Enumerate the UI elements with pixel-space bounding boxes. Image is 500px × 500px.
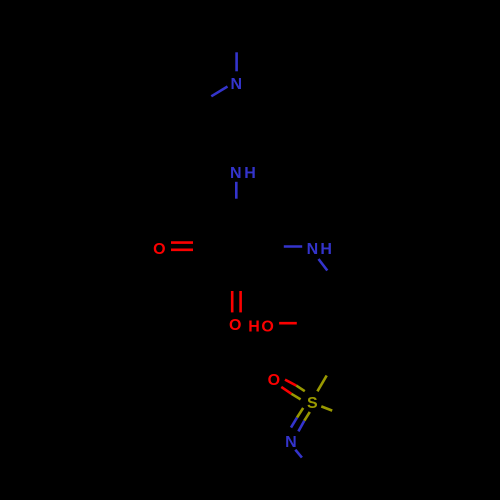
svg-text:N: N xyxy=(230,165,242,182)
svg-text:O: O xyxy=(229,317,241,334)
wire NH3-C left (blue half) xyxy=(284,245,302,248)
wire N1-CH3 up (blue half) xyxy=(235,52,238,71)
wire S=N left line olive half xyxy=(297,408,303,418)
wire S=N left line blue half xyxy=(291,418,297,428)
wire HO-C right (red half) xyxy=(279,322,297,325)
svg-text:H: H xyxy=(320,241,332,258)
svg-text:N: N xyxy=(285,434,297,451)
wire C=O left double bond upper (red half) xyxy=(171,241,193,244)
svg-text:N: N xyxy=(231,76,243,93)
svg-text:N: N xyxy=(307,241,319,258)
wire NH2-C down (blue half) xyxy=(235,182,238,199)
wire S=O lower line olive half xyxy=(291,394,300,400)
wire C=O bottom double bond left line (red half) xyxy=(231,291,234,312)
wire NH3-C down-right (blue half) xyxy=(319,259,328,271)
wire S=N right line blue half xyxy=(298,421,304,432)
wire S=O upper line red half xyxy=(285,380,296,386)
wire N1-CH3 down-left (blue half) xyxy=(211,87,227,97)
svg-text:H: H xyxy=(244,165,256,182)
wire C=O left double bond lower (red half) xyxy=(171,249,193,252)
wire N-CH3 down-right (blue half) xyxy=(295,450,302,458)
wire C=O bottom double bond right line (red half) xyxy=(239,291,242,312)
wire S=O lower line red half xyxy=(281,387,291,394)
svg-text:O: O xyxy=(153,241,165,258)
svg-text:S: S xyxy=(307,395,318,412)
wire S-CH3 down-right (olive half) xyxy=(321,406,332,410)
svg-text:H: H xyxy=(248,319,260,336)
svg-text:O: O xyxy=(261,318,273,335)
wire S-CH2 up-right (olive half) xyxy=(317,376,326,392)
wire S=O upper line olive half xyxy=(296,386,305,392)
svg-text:O: O xyxy=(268,372,280,389)
wire S=N right line olive half xyxy=(304,412,310,421)
